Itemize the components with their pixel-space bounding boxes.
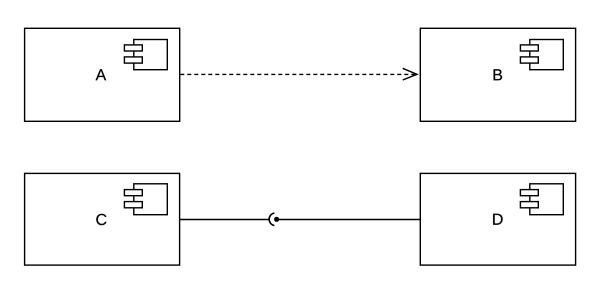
- wire ball to D: [277, 219, 421, 221]
- component icon A: [124, 40, 167, 70]
- ball (provided interface of D): [274, 217, 279, 222]
- socket (required interface of C): [269, 213, 274, 226]
- component icon C: [124, 184, 167, 215]
- label C: [96, 214, 106, 225]
- component icon D: [520, 184, 563, 215]
- component D: [420, 173, 575, 265]
- dependency wire A to B (dashed): [180, 73, 415, 75]
- component icon B: [520, 40, 563, 70]
- label A: [96, 69, 107, 80]
- component C: [25, 173, 180, 265]
- label B: [494, 69, 503, 80]
- label D: [493, 214, 502, 225]
- component A: [25, 28, 180, 121]
- component B: [420, 28, 575, 121]
- wire C to socket: [180, 219, 270, 221]
- arrowhead into B: [403, 68, 417, 80]
